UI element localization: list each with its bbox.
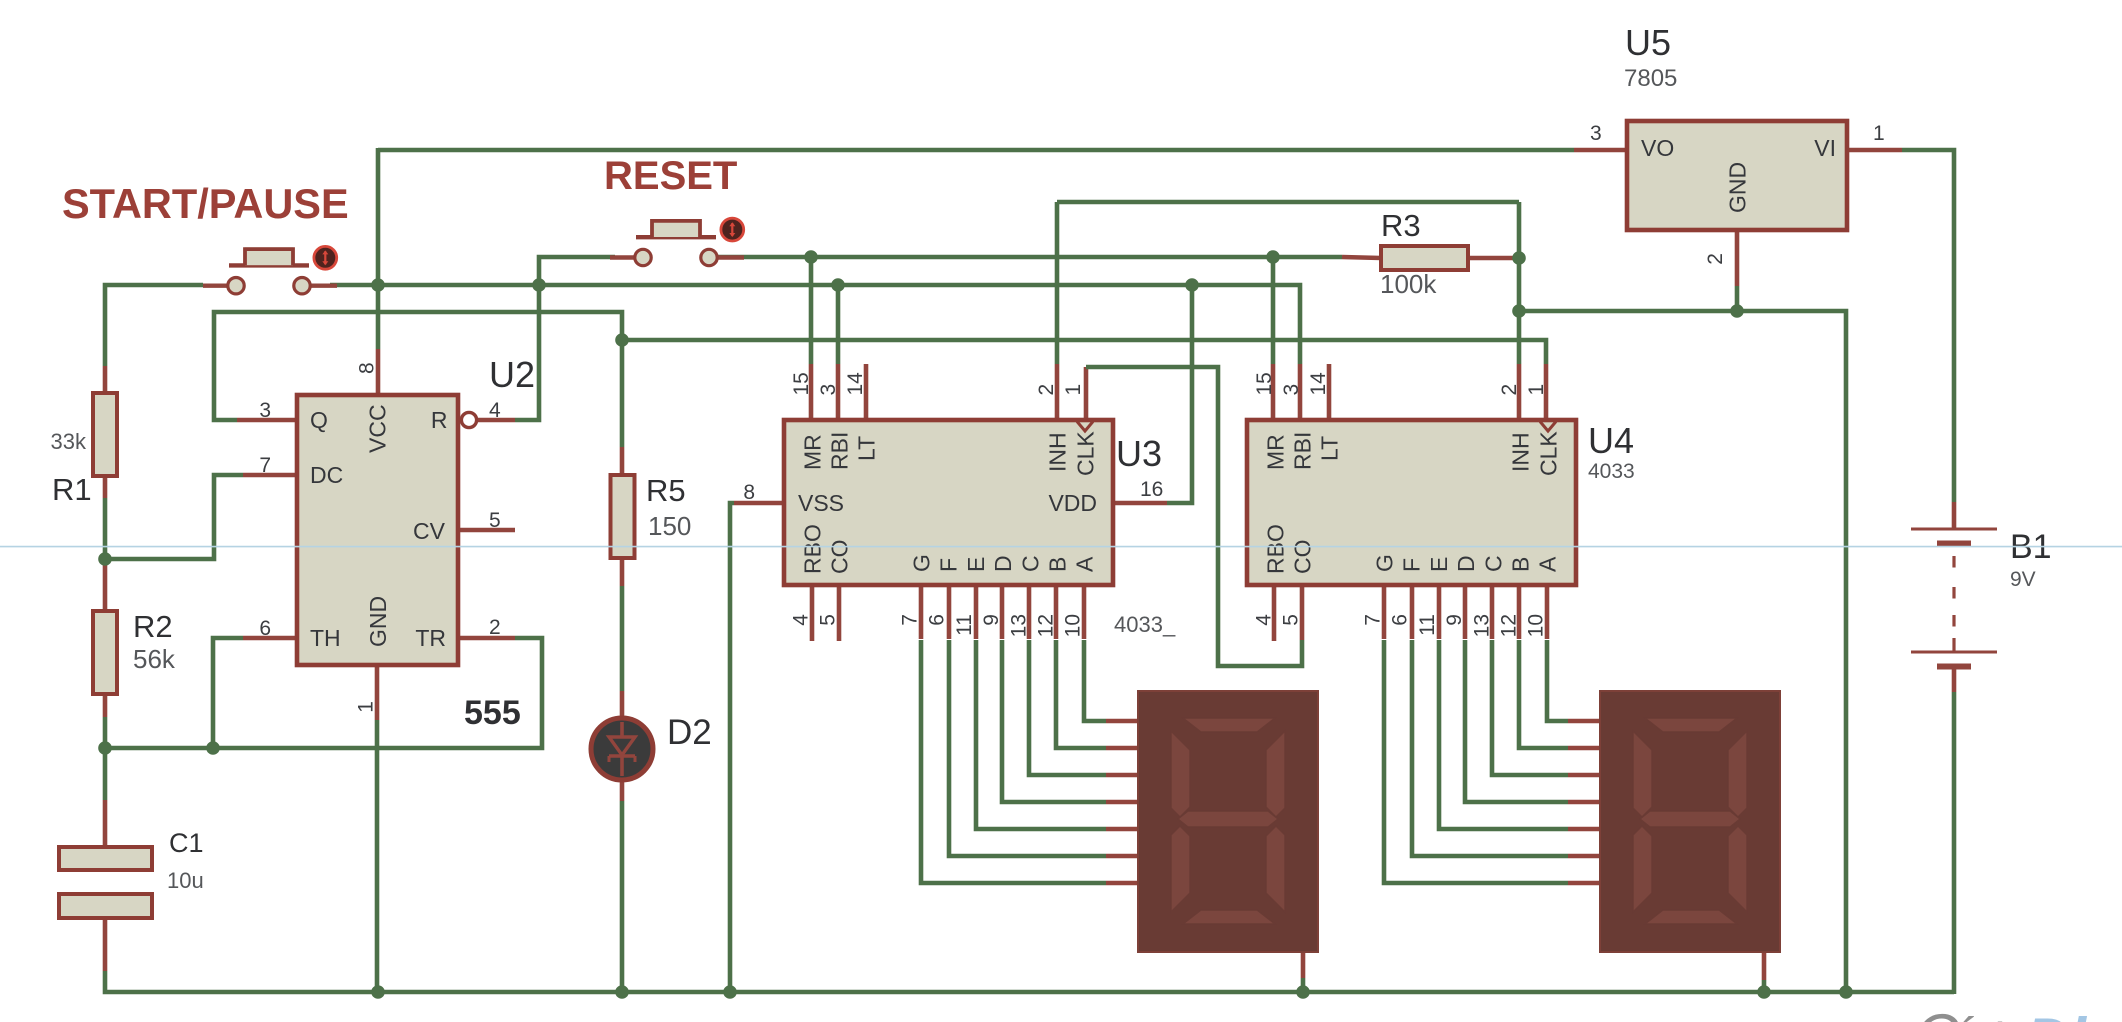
svg-text:13: 13 [1007,614,1030,637]
junction [723,985,737,999]
D2 anode stub [620,691,625,717]
svg-text:RESET: RESET [604,154,737,198]
wire U4 B to display [1519,640,1568,748]
junction [831,278,845,292]
U4 pin 4 stub [1272,585,1277,641]
ground bottom rail [105,971,1954,992]
svg-text:R1: R1 [52,472,92,507]
U5 pin 3 stub [1574,148,1629,153]
svg-text:RBI: RBI [1290,432,1316,470]
wire DC to R1/R2 junction [105,475,243,559]
U3 seg A pin stub [1082,585,1087,639]
R1 bottom stub [103,476,108,498]
svg-text:TH: TH [310,625,341,651]
svg-text:150: 150 [648,511,691,541]
junction [1730,304,1744,318]
wire RESET row [717,255,1342,260]
svg-text:9: 9 [980,614,1003,626]
svg-text:2: 2 [1704,253,1727,265]
555 pin 1 stub [375,667,380,720]
wire START rail [330,283,1192,288]
push button START/PAUSE [203,246,337,294]
svg-text:RBO: RBO [1263,524,1289,574]
svg-text:10: 10 [1062,614,1085,637]
svg-text:G: G [1372,554,1398,572]
555 pin 7 stub [243,473,295,478]
svg-text:555: 555 [464,694,521,732]
wire U4 A to display [1547,640,1568,721]
resistor R5 [611,475,635,558]
svg-text:5: 5 [489,509,501,532]
svg-text:CO: CO [1290,540,1316,575]
svg-text:R: R [431,407,448,433]
svg-text:F: F [936,558,962,572]
junction [1512,251,1526,265]
counter U3 4033 [784,420,1113,585]
U5 pin 2 stub [1735,230,1740,286]
B1 negative stub [1952,669,1957,692]
7-segment display 1 [1138,691,1318,952]
R2 top stub [103,559,108,611]
display2 common stub [1762,953,1767,980]
svg-text:12: 12 [1035,614,1058,637]
wire START btn to R1 [105,285,203,366]
R3 right stub [1468,256,1519,261]
junction [615,985,629,999]
svg-text:VDD: VDD [1048,490,1097,516]
junction [804,250,818,264]
display2 B stub [1568,746,1600,751]
junction [615,333,629,347]
wire U4 F to display [1412,640,1568,856]
svg-text:D2: D2 [667,713,712,752]
wire U4 D to display [1465,640,1568,802]
wire junction row [105,746,213,751]
svg-text:LT: LT [1317,436,1343,461]
svg-text:CLK: CLK [1536,431,1562,476]
svg-text:INH: INH [1045,432,1071,472]
svg-text:10u: 10u [167,868,204,893]
wire INH gnd link [1057,200,1519,205]
wire U4 C to display [1492,640,1568,775]
U3 pin 4 stub [810,585,815,641]
555 pin 4 stub [477,418,515,423]
svg-text:8: 8 [356,362,379,374]
svg-text:A: A [1535,556,1561,572]
wire TR loop [213,638,542,748]
wire U4 G to display [1384,640,1568,883]
page boundary line [0,546,2122,548]
wire D2 to ground [620,801,625,992]
capacitor C1 [59,847,152,870]
svg-text:CO: CO [827,540,853,575]
svg-text:4: 4 [489,399,501,422]
svg-text:B: B [1508,557,1534,572]
svg-text:9: 9 [1443,614,1466,626]
555 pin 3 stub [237,418,295,423]
junction [371,278,385,292]
display2 C stub [1568,773,1600,778]
svg-text:7: 7 [1362,614,1385,626]
U3 seg F pin stub [947,585,952,639]
wire display1 to ground [1301,978,1306,992]
wire 555 VCC vertical [376,285,381,349]
wire U3 C to display [1029,640,1106,775]
display1 E stub [1106,827,1138,832]
wire U3 A to display [1084,640,1106,721]
U4 seg E pin stub [1437,585,1442,639]
counter U4 4033 [1247,420,1576,585]
svg-text:it: it [1990,1013,2017,1022]
svg-text:CLK: CLK [1073,431,1099,476]
U3 pin 14 stub [864,364,869,420]
svg-text:16: 16 [1140,478,1163,501]
U3 seg G pin stub [919,585,924,639]
svg-text:7: 7 [259,454,271,477]
svg-text:1: 1 [1873,122,1885,145]
wire CLK rail to U4 [622,340,1546,364]
display1 G stub [1106,881,1138,886]
wire Q to junction [214,312,622,420]
svg-text:Q: Q [310,407,328,433]
U3 seg C pin stub [1027,585,1032,639]
555 pin 6 stub [243,636,295,641]
wire U3 E to display [976,640,1106,829]
svg-text:GND: GND [365,596,391,647]
wire display2 to ground [1762,980,1767,992]
wire U5 VI to battery [1902,150,1954,502]
svg-text:VCC: VCC [365,404,391,453]
svg-text:Digest: Digest [2026,1006,2122,1022]
svg-text:C1: C1 [169,828,204,858]
svg-text:LT: LT [854,436,880,461]
wire RESET to U4 MR [1271,257,1276,364]
svg-text:9V: 9V [2010,568,2036,591]
C1 bottom stub [103,918,108,971]
U4 seg G pin stub [1382,585,1387,639]
svg-text:2: 2 [1035,384,1058,396]
U3 pin 5 stub [837,585,842,641]
svg-text:G: G [909,554,935,572]
display1 B stub [1106,746,1138,751]
junction [532,278,546,292]
svg-text:D: D [990,555,1016,572]
U3 pin 2 stub [1055,364,1060,420]
U3 seg E pin stub [974,585,979,639]
svg-text:11: 11 [1416,614,1439,636]
junction [98,552,112,566]
svg-text:START/PAUSE: START/PAUSE [62,180,349,227]
wire R1 to junction [103,498,108,559]
wire R pin to RESET net [515,285,539,420]
svg-text:15: 15 [1253,372,1276,395]
svg-text:4033: 4033 [1588,460,1635,483]
wire R5 to D2 [620,586,625,691]
svg-text:4: 4 [790,614,813,626]
svg-text:3: 3 [1590,122,1602,145]
display2 E stub [1568,827,1600,832]
svg-text:5: 5 [817,614,840,626]
svg-text:MR: MR [800,434,826,470]
LED D2 [591,718,653,780]
wire 555 GND to rail [375,720,380,992]
svg-text:U4: U4 [1588,420,1634,461]
svg-text:7: 7 [899,614,922,626]
svg-text:C: C [1915,1002,1959,1022]
svg-text:10: 10 [1525,614,1548,637]
R2 bottom stub [103,694,108,717]
U4 pin 2 stub [1517,364,1522,420]
555 pin 8 stub [376,349,381,394]
U3 pin 1 stub [1084,367,1089,420]
svg-text:1: 1 [1062,384,1085,396]
display2 F stub [1568,854,1600,859]
svg-text:í: í [1956,1008,1974,1022]
display1 F stub [1106,854,1138,859]
wire Q to R5 [620,340,625,447]
wire rail to U3 VDD [1167,285,1192,503]
svg-text:100k: 100k [1380,269,1437,299]
U3 seg D pin stub [1000,585,1005,639]
svg-text:14: 14 [1307,372,1330,396]
svg-text:11: 11 [953,614,976,636]
resistor R2 [93,611,117,694]
svg-text:R5: R5 [646,473,686,508]
U4 pin 3 stub [1298,364,1303,420]
R5 bottom stub [620,558,625,586]
svg-text:A: A [1072,556,1098,572]
U4 seg A pin stub [1545,585,1550,639]
svg-text:VSS: VSS [798,490,844,516]
wire rail to U3 RBI [836,285,841,364]
wire TH link [213,638,243,748]
wire R2 to C1 junction [103,717,108,748]
svg-text:R2: R2 [133,609,173,644]
display1 common stub [1301,952,1306,978]
svg-text:RBI: RBI [827,432,853,470]
svg-text:F: F [1399,558,1425,572]
svg-text:VO: VO [1641,135,1674,161]
wire VCC top rail [378,148,1574,153]
op-amp U2 555 timer [297,395,458,665]
U4 pin 14 stub [1327,364,1332,420]
svg-text:R3: R3 [1381,208,1421,243]
svg-text:MR: MR [1263,434,1289,470]
svg-text:U3: U3 [1116,433,1162,474]
svg-text:5: 5 [1280,614,1303,626]
svg-text:DC: DC [310,462,343,488]
junction [1512,304,1526,318]
7-segment display 2 [1600,691,1780,952]
svg-text:VI: VI [1814,135,1836,161]
display2 G stub [1568,881,1600,886]
svg-text:8: 8 [743,481,755,504]
display2 D stub [1568,800,1600,805]
svg-text:56k: 56k [133,644,176,674]
wire rail up to RESET btn [539,257,615,285]
U3 pin 3 stub [836,364,841,420]
junction [1185,278,1199,292]
555 pin 2 stub [460,636,515,641]
regulator U5 7805 [1627,121,1847,230]
U4 seg C pin stub [1490,585,1495,639]
svg-text:E: E [963,557,989,572]
R5 top stub [620,447,625,475]
wire GND rail to bottom [1519,311,1846,992]
svg-text:33k: 33k [51,429,87,454]
U4 pin 5 stub [1300,585,1305,640]
svg-text:2: 2 [1498,384,1521,396]
junction [1757,985,1771,999]
svg-text:U5: U5 [1625,22,1671,63]
U3 seg B pin stub [1054,585,1059,639]
svg-text:B: B [1045,557,1071,572]
svg-text:14: 14 [844,372,867,396]
svg-text:1: 1 [1525,384,1548,396]
junction [1266,250,1280,264]
battery B1 [1911,528,1997,531]
U4 seg D pin stub [1463,585,1468,639]
svg-text:15: 15 [790,372,813,395]
svg-text:E: E [1426,557,1452,572]
push button RESET [610,218,744,266]
display1 A stub [1106,719,1138,724]
wire junction to C1 [103,748,108,800]
svg-text:6: 6 [926,614,949,626]
svg-text:TR: TR [415,625,446,651]
junction [206,741,220,755]
U3 pin 8 stub [734,501,784,506]
svg-text:C: C [1017,555,1043,572]
U3 pin 16 stub [1113,501,1167,506]
resistor R3 [1381,246,1468,270]
U4 pin 15 stub [1271,364,1276,420]
svg-text:3: 3 [259,399,271,422]
svg-text:RBO: RBO [800,524,826,574]
wire B1 to ground rail [1952,692,1957,994]
wire U3 B to display [1056,640,1106,748]
D2 cathode stub [620,781,625,801]
svg-text:12: 12 [1498,614,1521,637]
svg-text:INH: INH [1508,432,1534,472]
B1 positive stub [1952,502,1957,528]
svg-text:6: 6 [259,617,271,640]
wire rail to U4 RBI [1192,285,1300,364]
U4 pin 1 stub [1544,364,1549,420]
svg-text:6: 6 [1389,614,1412,626]
U3 pin 15 stub [809,364,814,420]
C1 top stub [103,800,108,847]
wire VCC drop to 555 pin8 [376,148,381,285]
wire U4 CO to U3 CLK [1086,367,1302,666]
svg-text:D: D [1453,555,1479,572]
junction [371,985,385,999]
wire U3 F to display [949,640,1106,856]
R1 top stub [103,366,108,394]
wire to U3 INH [1055,202,1060,364]
svg-text:7805: 7805 [1624,65,1677,92]
R3 left stub [1342,257,1381,258]
wire U5 GND down [1735,286,1740,311]
svg-text:4: 4 [1253,614,1276,626]
junction [1839,985,1853,999]
svg-text:13: 13 [1470,614,1493,637]
junction [1296,985,1310,999]
svg-text:2: 2 [489,616,501,639]
wire U4 E to display [1439,640,1568,829]
svg-text:U2: U2 [489,354,535,395]
wire U3 D to display [1002,640,1106,802]
junction [98,741,112,755]
display1 C stub [1106,773,1138,778]
U4 seg B pin stub [1517,585,1522,639]
display1 D stub [1106,800,1138,805]
svg-text:1: 1 [355,701,378,713]
display2 A stub [1568,719,1600,724]
svg-text:3: 3 [1280,384,1303,396]
wire to U4 INH [1517,202,1522,364]
wire U3 G to display [921,640,1106,883]
svg-text:C: C [1480,555,1506,572]
svg-text:4033_: 4033_ [1114,612,1176,637]
wire VSS to ground [730,503,734,992]
svg-text:GND: GND [1725,162,1751,213]
U5 pin 1 stub [1847,148,1902,153]
svg-text:CV: CV [413,518,446,544]
555 pin 5 stub [460,528,515,533]
svg-text:3: 3 [817,384,840,396]
U4 seg F pin stub [1410,585,1415,639]
wire RESET to U3 MR [809,257,814,364]
resistor R1 [93,393,117,476]
